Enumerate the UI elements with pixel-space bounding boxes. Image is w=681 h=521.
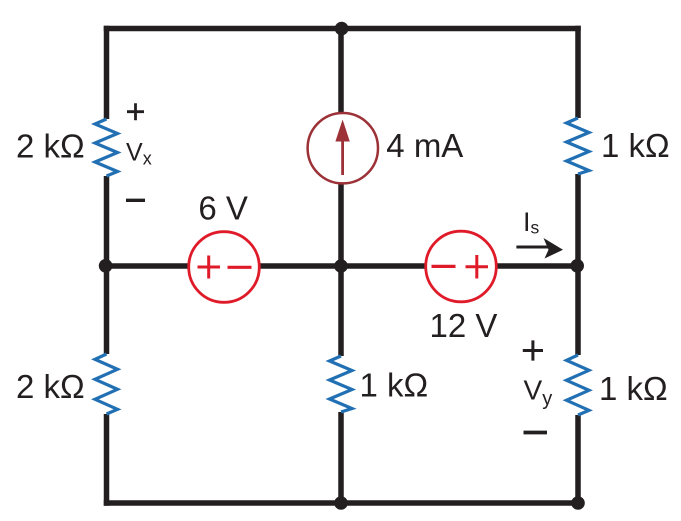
wire top (104, 26, 581, 32)
svg-text:2 kΩ: 2 kΩ (16, 368, 85, 405)
svg-text:1 kΩ: 1 kΩ (599, 370, 668, 407)
svg-text:2 kΩ: 2 kΩ (16, 128, 85, 165)
node dot bottom-center (334, 496, 348, 510)
svg-text:4 mA: 4 mA (386, 127, 463, 164)
resistor R4 1kohm bottom-right (567, 355, 590, 415)
wire middle horizontal (107, 263, 579, 269)
svg-text:6 V: 6 V (198, 190, 248, 227)
svg-text:Is: Is (523, 207, 540, 238)
wire left upper (104, 26, 110, 119)
plus sign Vx (127, 103, 144, 120)
wire right upper (575, 26, 581, 118)
arrow Is (516, 246, 553, 249)
12V plus sign (466, 255, 489, 279)
wire left lower (104, 414, 110, 506)
12V minus sign (432, 265, 456, 268)
minus sign Vx (126, 199, 145, 202)
plus sign Vy (523, 340, 543, 360)
current source 4mA circle (308, 113, 378, 183)
wire right lower (575, 415, 581, 506)
6V minus sign (228, 266, 252, 269)
svg-text:1 kΩ: 1 kΩ (601, 127, 670, 164)
svg-text:12 V: 12 V (430, 307, 498, 344)
svg-text:Vx: Vx (126, 139, 152, 169)
node dot top-center (335, 22, 349, 36)
wire right middle (575, 174, 581, 355)
current source arrow (341, 140, 344, 175)
svg-text:Vy: Vy (524, 375, 553, 411)
wire center vertical lower (338, 412, 344, 503)
wire bottom (104, 500, 581, 506)
wire center vertical middle (338, 177, 344, 356)
resistor R2 2kohm bottom-left (95, 354, 118, 414)
6V plus sign (198, 256, 221, 279)
svg-text:1 kΩ: 1 kΩ (360, 367, 429, 404)
node dot bottom-right (571, 496, 585, 510)
wire center vertical upper (338, 29, 344, 121)
node dot mid-center (334, 259, 348, 273)
resistor R3 1kohm top-right (567, 118, 590, 174)
voltage source 6V circle (189, 232, 260, 303)
resistor R1 2kohm top-left (95, 119, 118, 176)
minus sign Vy (524, 431, 548, 435)
resistor R5 1kohm bottom-middle (330, 356, 353, 412)
voltage source 12V circle (426, 231, 497, 302)
node dot mid-left (99, 259, 113, 273)
node dot mid-right (570, 259, 584, 273)
wire left middle (104, 176, 110, 354)
